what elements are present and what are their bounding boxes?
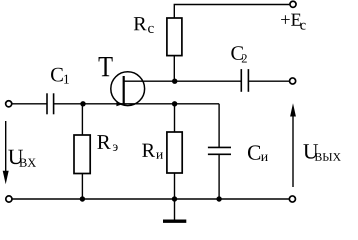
label C2 <box>231 46 246 62</box>
wire C2 to output terminal <box>248 80 289 82</box>
transistor T gate arrowhead <box>116 102 123 107</box>
node source junction <box>172 101 177 106</box>
wire Re top lead <box>81 104 83 135</box>
transistor T channel bar <box>123 76 125 105</box>
output bottom terminal <box>289 196 295 202</box>
wire top rail from Rc to +Ec terminal <box>174 5 289 19</box>
wire Cu bottom lead <box>218 154 220 199</box>
input voltage arrow Uvx (down) <box>3 121 9 184</box>
wire C1 through gate/source line to Cu branch corner <box>54 103 220 105</box>
wire Ru bottom lead <box>174 173 176 199</box>
output top terminal <box>290 78 296 84</box>
label Ru <box>142 144 163 159</box>
label +Ec <box>281 14 306 30</box>
label T <box>99 57 113 76</box>
capacitor Cu <box>208 147 231 154</box>
label Uvx <box>8 150 36 167</box>
input bottom terminal <box>6 196 12 202</box>
wire Re bottom lead <box>81 174 83 200</box>
node drain junction <box>172 79 177 84</box>
resistor Rc <box>167 18 182 56</box>
wire input terminal to C1 <box>12 103 47 105</box>
wire Cu top lead <box>218 104 220 148</box>
label Re <box>97 135 117 151</box>
label Cu <box>248 145 268 161</box>
wire bottom rail <box>12 198 289 200</box>
resistor Ru <box>167 132 182 173</box>
capacitor C1 <box>47 93 54 114</box>
node Re junction <box>80 101 85 106</box>
ground <box>163 199 186 221</box>
node Ru bottom junction <box>172 196 177 201</box>
label C1 <box>51 68 69 84</box>
capacitor C2 <box>241 69 248 92</box>
input top terminal <box>6 101 12 107</box>
label Rc <box>134 17 154 33</box>
wire Rc bottom lead <box>173 56 175 82</box>
wire Ru top lead <box>174 104 176 132</box>
resistor Re <box>74 135 90 174</box>
transistor T circle <box>111 72 145 106</box>
node Re bottom junction <box>80 196 85 201</box>
node Cu bottom junction <box>216 196 221 201</box>
+Ec supply terminal <box>290 1 296 7</box>
output voltage arrow Uvyx (up) <box>290 103 296 187</box>
label Uvyx <box>303 144 341 161</box>
wire drain line from transistor to C2 <box>124 80 242 82</box>
